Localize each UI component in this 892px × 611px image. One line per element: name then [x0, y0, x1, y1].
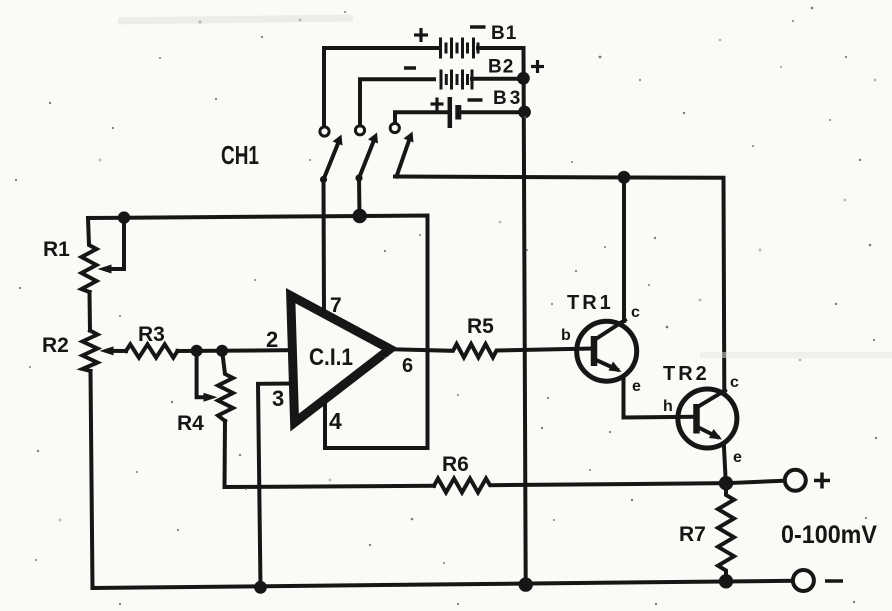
resistor R3	[126, 344, 178, 357]
wire + battery rail (vertical, top to bottom rail)	[524, 48, 526, 585]
wire arm2 drop to node	[357, 178, 362, 216]
node B2 + rail junction	[517, 72, 530, 85]
label + of B1	[414, 28, 428, 42]
wire R4 wiper	[197, 351, 204, 398]
wire TR2 emitter down	[724, 444, 726, 484]
switch CH1 contact 2	[355, 126, 364, 135]
svg-text:7: 7	[330, 294, 342, 317]
node B3 + rail junction	[518, 106, 531, 119]
wire R6 (from R4 bottom lead)	[434, 479, 726, 493]
label - of B2	[404, 66, 416, 70]
switch CH1 contact 1	[320, 127, 329, 136]
label + of B3	[431, 98, 444, 111]
svg-text:4: 4	[329, 408, 342, 434]
wire R2 down to bottom rail	[91, 371, 93, 588]
svg-text:CH1: CH1	[221, 140, 259, 170]
switch CH1 contact 3	[390, 123, 399, 132]
svg-text:0-100mV: 0-100mV	[781, 521, 877, 549]
wire selected supply to transistor collectors	[395, 177, 724, 392]
svg-text:TR2: TR2	[663, 363, 710, 385]
svg-text:e: e	[632, 378, 641, 395]
node R4 top tap	[216, 345, 228, 357]
wire top bus (R1 top / pin4 loop)	[88, 216, 428, 449]
wire bottom rail	[93, 581, 793, 588]
battery B1	[324, 23, 524, 127]
node pin3 bottom junction	[254, 581, 267, 594]
svg-text:TR1: TR1	[567, 292, 614, 314]
wire to + terminal	[726, 481, 785, 484]
svg-text:R3: R3	[138, 323, 165, 346]
svg-text:B3: B3	[493, 88, 523, 109]
svg-text:R1: R1	[43, 238, 70, 261]
svg-text:3: 3	[272, 386, 284, 411]
svg-text:R4: R4	[177, 412, 204, 435]
battery B3 plates	[448, 97, 453, 128]
svg-text:R6: R6	[442, 453, 469, 476]
wire op-amp output to TR1 base with resistor R5	[390, 344, 591, 357]
resistor R2 (pot body)	[83, 331, 98, 372]
svg-text:R5: R5	[467, 315, 494, 338]
wire R2 wiper / R3 left lead with arrow	[112, 349, 126, 353]
node wiper R1 tap	[118, 211, 130, 223]
switch CH1 arm 2	[355, 133, 378, 182]
op-amp C.I.1	[291, 296, 390, 423]
wire pin7 riser from arm1	[322, 180, 327, 315]
svg-text:R2: R2	[42, 334, 69, 357]
switch CH1 arm 3	[397, 132, 414, 177]
transistor TR1	[577, 320, 637, 381]
battery B2 plates	[441, 70, 472, 90]
label + output	[814, 473, 830, 489]
wire B3 right lead	[460, 110, 525, 114]
svg-text:B2: B2	[488, 57, 514, 78]
node R4 wiper tap	[191, 345, 203, 357]
svg-text:e: e	[733, 449, 742, 466]
terminal + output	[785, 470, 806, 491]
battery B2	[360, 57, 530, 126]
wire pin 3	[258, 384, 294, 588]
node arm2 junction	[353, 209, 367, 223]
switch CH1 arm 1	[320, 135, 343, 184]
svg-text:h: h	[663, 398, 673, 415]
wire B3 left lead	[395, 112, 448, 123]
label - output	[825, 579, 843, 583]
node output + junction	[719, 476, 733, 490]
wire B1 right lead to + rail	[478, 46, 524, 50]
label - of B1	[470, 25, 486, 29]
node R7 bottom junction	[719, 574, 733, 588]
resistor R1 (pot body)	[82, 218, 97, 292]
transistor TR2	[678, 389, 737, 448]
label + supply rail	[531, 60, 544, 73]
wire TR1 collector riser	[622, 177, 626, 321]
resistor R4 (trim body)	[218, 351, 233, 421]
wire B2 right lead	[472, 77, 524, 81]
node collector tap TR1	[618, 171, 631, 184]
terminal - output	[793, 570, 814, 591]
wire R1 to R2	[88, 292, 93, 331]
svg-text:c: c	[631, 304, 640, 321]
wire R1 wiper	[110, 218, 124, 269]
svg-text:C.I.1: C.I.1	[309, 344, 353, 371]
svg-text:R7: R7	[679, 523, 706, 546]
svg-text:2: 2	[266, 327, 278, 352]
label - of B3	[468, 98, 483, 102]
resistor R7	[718, 483, 734, 581]
battery B3	[395, 88, 531, 128]
wire R4 bottom to R6	[225, 421, 435, 487]
wire R3 to pin 2	[178, 348, 293, 353]
svg-text:B1: B1	[491, 23, 517, 44]
svg-text:6: 6	[402, 355, 413, 377]
battery B1 plates	[441, 38, 479, 59]
svg-text:c: c	[730, 374, 739, 391]
wire B2 left lead	[360, 79, 434, 125]
wire TR1 emitter to TR2 base	[624, 378, 695, 418]
svg-text:b: b	[561, 327, 571, 344]
wire B1 left lead	[324, 48, 438, 127]
node rail bottom junction	[519, 577, 533, 591]
